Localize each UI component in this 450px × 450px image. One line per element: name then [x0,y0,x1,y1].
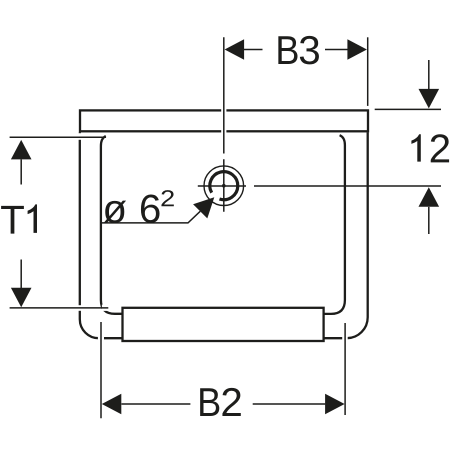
label glyph sup-2 [161,190,173,206]
B2 dimension line tails [122,403,326,405]
B3 dimension line tails [244,49,348,51]
label glyph dia-6 [141,194,160,223]
label glyph 12-2 [431,134,449,162]
leader line for diameter label [102,211,201,223]
white gaps where thin lines cross thick outlines [77,108,347,341]
drain center dot [222,184,226,188]
T1 reference lines [10,137,109,308]
B2 extension lines [101,322,345,418]
label glyph B3-3 [300,36,319,65]
T1 up arrowhead [11,140,32,160]
label glyph T1-T [1,206,24,234]
label glyph dia-o [103,201,126,224]
inner basin right wall [322,135,345,314]
12 top reference line [375,108,441,110]
12 bottom arrowhead (up) [419,187,440,207]
drain horizontal centerline / 12 bottom reference line [198,185,441,187]
12 top arrowhead (down) [419,89,440,109]
label glyph B2-B [200,388,219,416]
digit 1 of label T1 [28,204,37,233]
sink rim [80,110,368,131]
B2 right arrowhead [325,394,345,415]
12 dimension arrow tails [428,60,430,234]
label glyph B2-2 [222,388,240,416]
B3 right extension line [367,37,369,106]
front apron bar [123,308,324,341]
B2 left arrowhead [102,394,122,415]
T1 down arrowhead [11,288,32,308]
inner basin left wall [101,136,125,314]
drain thick circle (with gap toward leader arrow) [210,172,238,200]
leader arrowhead for diameter label [193,197,214,218]
label glyph B3-B [278,36,297,64]
B3 left arrowhead [225,39,245,60]
drain thin outer circle [204,166,244,206]
T1 dimension arrow tails [20,159,22,288]
sink outer body wall [80,133,368,339]
drain vertical centerline / B3 left extension line [223,37,225,212]
B3 right arrowhead [347,39,367,60]
digit 1 of label 12 [411,134,420,161]
